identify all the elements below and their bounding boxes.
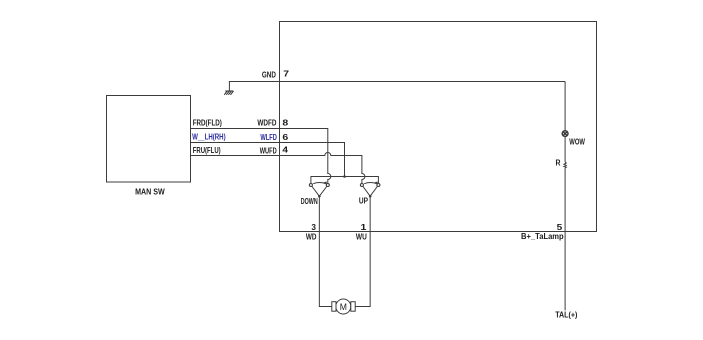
svg-text:6: 6 — [282, 133, 288, 143]
WUFD label — [260, 146, 277, 155]
lamp WOW — [562, 131, 568, 137]
pin 6 — [282, 133, 288, 143]
svg-text:WUFD: WUFD — [260, 146, 277, 155]
MAN SW label — [135, 186, 166, 196]
pin 5 — [557, 223, 563, 232]
svg-text:FRD(FLD): FRD(FLD) — [193, 119, 222, 128]
pin 8 — [282, 118, 288, 128]
motor M1 — [332, 299, 355, 314]
wire WDFD net (pin 8 row) — [190, 129, 330, 184]
WU label — [356, 232, 367, 241]
wire WU net (pin 1 to motor) — [355, 196, 370, 306]
TAL(+) label — [555, 311, 577, 320]
svg-text:FRU(FLU): FRU(FLU) — [193, 146, 221, 155]
UP label — [359, 196, 369, 205]
svg-text:7: 7 — [283, 70, 289, 79]
driver DOWN — [309, 182, 329, 198]
WLFD label — [260, 133, 277, 142]
wire GND net — [229, 82, 565, 92]
svg-text:4: 4 — [282, 145, 289, 154]
wire WLFD net (pin 6 row) — [190, 143, 344, 177]
GND label — [262, 70, 276, 80]
wire link to driver outer inputs — [311, 177, 379, 184]
M label — [340, 302, 347, 312]
svg-text:3: 3 — [311, 222, 316, 232]
W__LH(RH) label — [192, 133, 226, 142]
WD label — [306, 232, 317, 241]
svg-text:WOW: WOW — [569, 138, 585, 147]
svg-text:5: 5 — [557, 223, 563, 232]
svg-text:M: M — [340, 302, 347, 312]
pin 7 — [283, 70, 289, 79]
pin 1 — [360, 223, 367, 232]
driver UP — [360, 182, 380, 198]
FRU(FLU) label — [193, 146, 221, 155]
DOWN label — [301, 197, 318, 206]
pin 3 — [311, 222, 316, 232]
svg-text:GND: GND — [262, 70, 276, 80]
B+_TaLamp label — [521, 232, 564, 241]
wire WD net (pin 3 to motor) — [319, 196, 331, 306]
svg-text:TAL(+): TAL(+) — [555, 311, 577, 320]
svg-text:1: 1 — [360, 223, 367, 232]
FRD(FLD) label — [193, 119, 222, 128]
svg-text:WDFD: WDFD — [257, 119, 276, 128]
wire WUFD net (pin 4 row) — [190, 153, 365, 184]
WOW label — [569, 138, 585, 147]
svg-text:MAN SW: MAN SW — [135, 186, 166, 196]
resistor R — [564, 162, 566, 168]
module box U1 — [280, 22, 597, 232]
svg-text:WU: WU — [356, 232, 367, 241]
MAN SW switch box — [107, 96, 191, 183]
svg-text:8: 8 — [282, 118, 288, 128]
svg-text:WD: WD — [306, 232, 317, 241]
wire B+ tail lamp net — [564, 82, 566, 311]
svg-text:B+_TaLamp: B+_TaLamp — [521, 232, 564, 241]
WDFD label — [257, 119, 276, 128]
svg-text:WLFD: WLFD — [260, 133, 277, 142]
pin 4 — [282, 145, 289, 154]
junction dot node WLFD — [343, 175, 346, 178]
svg-text:W__LH(RH): W__LH(RH) — [192, 133, 226, 142]
ground — [224, 91, 233, 95]
svg-text:UP: UP — [359, 196, 369, 205]
svg-text:R: R — [556, 159, 561, 168]
R label — [556, 159, 561, 168]
svg-text:DOWN: DOWN — [301, 197, 318, 206]
